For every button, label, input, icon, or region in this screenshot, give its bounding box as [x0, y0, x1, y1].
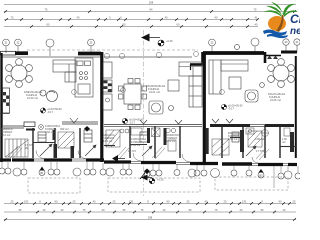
svg-text:17.7x5: 17.7x5 [128, 149, 136, 153]
svg-text:12.0 m2: 12.0 m2 [103, 139, 113, 143]
svg-text:298: 298 [148, 215, 153, 219]
svg-text:3.05 m2: 3.05 m2 [228, 137, 238, 141]
svg-text:130: 130 [129, 199, 134, 203]
svg-text:Cr: Cr [290, 12, 300, 26]
svg-text:130: 130 [242, 199, 247, 203]
svg-text:12.0 m2: 12.0 m2 [1, 133, 11, 137]
svg-text:298: 298 [149, 0, 154, 4]
svg-text:31.01 m2: 31.01 m2 [149, 90, 160, 94]
svg-text:-0.17: -0.17 [129, 121, 135, 125]
svg-text:4.80 m2: 4.80 m2 [131, 143, 141, 147]
svg-text:-0.17: -0.17 [47, 110, 53, 114]
svg-text:4.80 m2: 4.80 m2 [255, 137, 265, 141]
svg-text:2R: 2R [25, 146, 28, 150]
svg-text:-0.17: -0.17 [228, 107, 234, 111]
svg-text:4.60 m2: 4.60 m2 [45, 130, 55, 134]
svg-text:130: 130 [24, 199, 29, 203]
svg-text:17.7x5: 17.7x5 [256, 149, 264, 153]
svg-text:+0.26: +0.26 [166, 39, 173, 43]
svg-text:3.01 m2: 3.01 m2 [166, 139, 176, 143]
svg-text:ne: ne [290, 26, 300, 37]
svg-text:m2: m2 [282, 140, 286, 144]
svg-text:450 m2: 450 m2 [60, 127, 69, 131]
svg-text:12.00 m2: 12.00 m2 [27, 96, 38, 100]
svg-text:31.06 m2: 31.06 m2 [270, 98, 281, 102]
svg-text:+0.26: +0.26 [157, 178, 164, 182]
